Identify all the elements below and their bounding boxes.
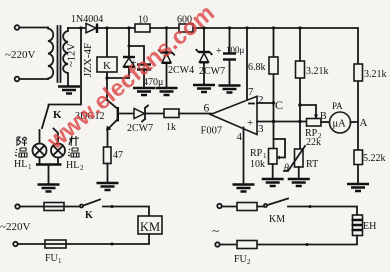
svg-text:JZX-4F: JZX-4F [82, 43, 94, 77]
svg-text:2CW4: 2CW4 [168, 65, 194, 76]
svg-text:3.21k: 3.21k [364, 69, 387, 80]
svg-text:K: K [103, 60, 111, 72]
svg-text:5.22k: 5.22k [363, 153, 386, 164]
svg-text:4: 4 [237, 131, 243, 143]
svg-text:~12V: ~12V [66, 43, 77, 67]
svg-text:6: 6 [204, 103, 210, 115]
svg-text:~220V: ~220V [0, 221, 30, 233]
svg-text:θ: θ [284, 163, 289, 174]
svg-text:3: 3 [258, 123, 264, 135]
svg-text:C: C [275, 98, 283, 112]
svg-text:10k: 10k [250, 159, 265, 170]
svg-text:1: 1 [58, 257, 62, 265]
svg-text:RT: RT [306, 159, 318, 170]
svg-text:A: A [360, 117, 368, 129]
svg-text:+: + [216, 46, 222, 57]
svg-text:F007: F007 [201, 126, 223, 137]
svg-text:1k: 1k [166, 122, 176, 133]
svg-text:7: 7 [248, 86, 254, 98]
svg-text:FU: FU [234, 254, 248, 265]
svg-text:EH: EH [363, 221, 376, 232]
svg-text:100μ: 100μ [226, 45, 245, 55]
svg-text:~: ~ [212, 223, 219, 238]
svg-text:HL: HL [66, 160, 79, 171]
svg-text:2: 2 [247, 258, 251, 266]
svg-text:2: 2 [80, 164, 84, 172]
svg-text:PA: PA [332, 101, 343, 111]
svg-text:KM: KM [140, 220, 160, 234]
svg-text:+: + [247, 117, 253, 129]
svg-text:μA: μA [333, 119, 347, 130]
svg-text:10: 10 [138, 15, 148, 26]
svg-text:KM: KM [269, 214, 285, 225]
svg-text:2CW7: 2CW7 [127, 123, 153, 134]
svg-text:FU: FU [45, 253, 59, 264]
svg-text:47: 47 [113, 150, 123, 161]
svg-text:B: B [320, 111, 327, 122]
svg-text:~220V: ~220V [5, 49, 35, 61]
svg-text:HL: HL [14, 159, 27, 170]
svg-text:1: 1 [28, 163, 32, 171]
svg-text:RP: RP [250, 148, 263, 159]
svg-text:2CW7: 2CW7 [199, 66, 225, 77]
svg-text:22k: 22k [306, 137, 321, 148]
svg-text:K: K [85, 210, 93, 221]
svg-text:6.8k: 6.8k [248, 62, 266, 73]
svg-text:3.21k: 3.21k [306, 66, 329, 77]
svg-text:2: 2 [258, 94, 264, 106]
